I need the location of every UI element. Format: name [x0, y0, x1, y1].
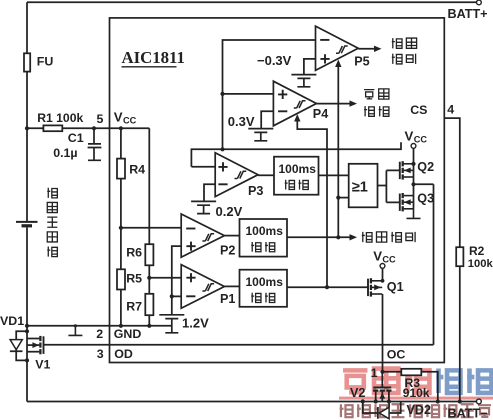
svg-text:0.1µ: 0.1µ — [53, 146, 77, 160]
svg-text:R7: R7 — [126, 300, 142, 314]
op-amp P3 — [215, 153, 258, 197]
svg-text:100ms: 100ms — [246, 224, 284, 238]
transistor V2 (rotated) — [381, 372, 383, 387]
svg-text:CC: CC — [123, 116, 137, 126]
terminal BATT- — [477, 399, 482, 404]
junction Q2 source / Q3 drain — [411, 182, 415, 186]
svg-text:R2: R2 — [469, 244, 485, 258]
fuse FU — [24, 53, 30, 71]
wire Vcc to Q1 drain — [382, 268, 384, 281]
svg-text:2: 2 — [96, 327, 103, 341]
wire OR output to Q2/Q3 gates — [378, 170, 400, 202]
svg-text:−0.3V: −0.3V — [257, 53, 292, 68]
wire P4 enable — [297, 120, 327, 287]
resistor R7 — [145, 294, 153, 315]
wire left rail lower — [26, 227, 28, 401]
resistor R4 — [117, 159, 125, 179]
label battery 锂离子电池 (vertical) — [47, 188, 57, 198]
wire R4/R5 tap to P2- — [121, 227, 181, 229]
svg-text:AIC1811: AIC1811 — [122, 48, 185, 67]
op-amp P2 — [181, 214, 224, 257]
wire 1.2V bus (P2+/P1-) — [172, 246, 181, 314]
wire CS pin to R2 — [444, 118, 460, 247]
reference -0.3V cell + ground — [291, 75, 316, 87]
svg-text:100ms: 100ms — [246, 275, 284, 289]
junction sense column / CS line — [220, 147, 224, 151]
svg-text:P2: P2 — [220, 244, 235, 258]
wire R5 to GND — [120, 290, 122, 326]
svg-text:P5: P5 — [354, 55, 369, 69]
wire P3 - input to 0.2V ref — [204, 184, 215, 201]
svg-text:V: V — [114, 110, 123, 125]
junction rail/GND — [25, 324, 29, 328]
wire P5 output — [358, 48, 374, 50]
wire Q2/Q3 mid to OD — [414, 183, 434, 185]
wire GND pin2 — [27, 325, 172, 327]
terminal Vcc (Q1) — [380, 264, 385, 269]
junction rail/R1 — [25, 126, 29, 130]
svg-text:910k: 910k — [403, 386, 430, 400]
junction R7/GND — [147, 324, 151, 328]
ground symbol on GND wire — [68, 326, 82, 336]
svg-text:V1: V1 — [35, 357, 50, 371]
wire delay3 to Q1 gate — [287, 286, 368, 288]
wire R3 to BATT- rail — [421, 372, 438, 402]
svg-text:OD: OD — [114, 347, 133, 361]
wire delay2 to power-down ctrl — [287, 236, 350, 238]
svg-text:BATT−: BATT− — [448, 407, 488, 420]
svg-text:C1: C1 — [68, 131, 84, 145]
reference 0.3V cell + ground — [248, 129, 273, 141]
wire P5 + input to -0.3V ref — [304, 59, 316, 75]
wire OC to R3 — [383, 371, 402, 373]
terminal BATT+ — [477, 0, 482, 5]
svg-text:FU: FU — [37, 54, 54, 68]
wire top BATT+ rail — [27, 1, 477, 3]
wire delay1 to OR gate — [319, 174, 349, 176]
junction R5/GND — [119, 324, 123, 328]
label 负载检测 line1 — [364, 90, 374, 99]
wire Q1 source to OC pin — [382, 294, 384, 372]
label 负载检测 line2 — [364, 106, 374, 116]
svg-text:Q3: Q3 — [417, 192, 434, 206]
svg-text:≥1: ≥1 — [352, 179, 368, 195]
wire VCC pin5 feed — [27, 127, 149, 129]
label 唤醒控制 line1 — [392, 38, 402, 48]
svg-text:V: V — [373, 248, 382, 263]
svg-text:R1 100k: R1 100k — [37, 111, 83, 125]
ground below Q3 — [407, 209, 421, 219]
junction P4 enable bus tap — [325, 285, 329, 289]
wire Vcc to Q2 drain — [413, 148, 415, 164]
svg-text:V2: V2 — [350, 386, 365, 400]
svg-text:OC: OC — [387, 348, 406, 362]
resistor R3 — [401, 369, 421, 376]
diode VD1 — [25, 329, 29, 333]
label 掉电控制 — [362, 232, 372, 242]
wire left rail upper — [26, 2, 28, 221]
resistor R2 — [456, 247, 463, 266]
svg-text:1.2V: 1.2V — [182, 316, 209, 331]
transistor Q2 — [399, 162, 401, 179]
block 100ms delay 1 — [274, 157, 319, 195]
wire OD pin3 — [44, 344, 434, 346]
wire P2 output — [224, 235, 239, 237]
wire to P3+ — [191, 166, 215, 168]
junction C1 tap — [92, 126, 96, 130]
svg-text:R4: R4 — [129, 163, 145, 177]
svg-text:P3: P3 — [248, 184, 263, 198]
capacitor C1 — [88, 128, 102, 160]
op-amp P1 — [181, 265, 224, 309]
svg-text:100ms: 100ms — [279, 162, 317, 176]
svg-text:Q2: Q2 — [417, 160, 434, 174]
svg-text:VD1: VD1 — [0, 314, 24, 328]
svg-text:4: 4 — [447, 103, 454, 117]
resistor R6 — [145, 244, 153, 265]
watermark text row 2 — [340, 404, 353, 417]
svg-text:V: V — [405, 129, 414, 144]
wire to R4 — [120, 128, 122, 158]
wire R4-R5 — [120, 179, 122, 270]
svg-text:0.2V: 0.2V — [216, 204, 243, 219]
svg-text:100k: 100k — [468, 258, 493, 270]
junction R6/R7 tap — [147, 276, 151, 280]
wire to P4+ — [223, 93, 274, 95]
block 100ms delay 3 — [240, 270, 288, 307]
op-amp P5 — [316, 26, 359, 70]
wire R2 to BATT- rail — [459, 266, 461, 401]
terminal Vcc (Q2) — [411, 144, 416, 149]
resistor R5 — [117, 269, 125, 289]
wire Q2/Q3 stack — [413, 164, 415, 209]
reference 0.2V cell + ground — [191, 201, 216, 213]
transistor V1 — [43, 336, 45, 354]
wire P1 output — [224, 285, 239, 287]
wire CS sense horizontal — [191, 142, 401, 167]
svg-text:R5: R5 — [126, 272, 142, 286]
junction OR input2 — [336, 196, 340, 200]
block 100ms delay 2 — [240, 219, 288, 257]
svg-text:3: 3 — [97, 347, 104, 361]
junction R4 tap — [119, 126, 123, 130]
resistor R1 — [43, 125, 62, 131]
op-amp P4 — [273, 81, 316, 126]
underline AIC1811 — [122, 66, 177, 68]
svg-text:CC: CC — [414, 135, 428, 145]
wire VCC to R6 — [148, 128, 150, 244]
reference 1.2V cell + ground — [159, 315, 184, 333]
watermark logo row 1 (pink+blue) — [343, 370, 367, 392]
transistor Q3 — [399, 194, 401, 211]
label 唤醒控制 line2 — [392, 54, 402, 64]
gate OR >=1 — [349, 164, 378, 208]
wire P4 - input to 0.3V ref — [261, 111, 273, 128]
wire bottom BATT- rail — [27, 401, 477, 403]
svg-text:BATT+: BATT+ — [448, 7, 488, 21]
wire R6-R7 — [148, 265, 150, 294]
wire OR input2 — [338, 197, 348, 199]
svg-text:VD2: VD2 — [407, 403, 432, 417]
junction P4+ tap — [220, 92, 224, 96]
svg-text:Q1: Q1 — [387, 280, 404, 294]
label 延时 (3) — [251, 293, 261, 303]
svg-text:5: 5 — [97, 112, 104, 126]
wire R7 to GND — [148, 315, 150, 326]
junction P1- on 1.2V bus — [170, 294, 174, 298]
battery B1 lithium-ion cell — [16, 221, 38, 223]
wire R6/R7 tap to P1+ — [149, 277, 181, 279]
svg-text:R6: R6 — [126, 246, 142, 260]
wire P5 enable bus — [337, 66, 339, 237]
svg-text:CS: CS — [410, 103, 427, 117]
svg-text:P1: P1 — [220, 292, 235, 306]
svg-text:1: 1 — [371, 366, 378, 380]
svg-text:0.3V: 0.3V — [228, 114, 255, 129]
svg-text:P4: P4 — [313, 107, 328, 121]
wire OD feedback vertical — [433, 184, 435, 344]
label 延时 (2) — [251, 242, 261, 252]
diode VD2 — [363, 402, 401, 419]
wire P5-/P4+ sense column — [223, 40, 316, 149]
junction P5 enable bus tap — [336, 235, 340, 239]
transistor Q1 — [367, 279, 369, 296]
svg-text:GND: GND — [114, 327, 142, 341]
junction R4/R5 tap — [119, 226, 123, 230]
label 延时 (1) — [285, 180, 295, 190]
junction OC node — [380, 370, 384, 374]
wire P3 output — [258, 174, 274, 176]
svg-text:CC: CC — [382, 254, 396, 264]
IC AIC1811 boundary box — [110, 18, 445, 363]
wire P4 output — [316, 103, 350, 105]
